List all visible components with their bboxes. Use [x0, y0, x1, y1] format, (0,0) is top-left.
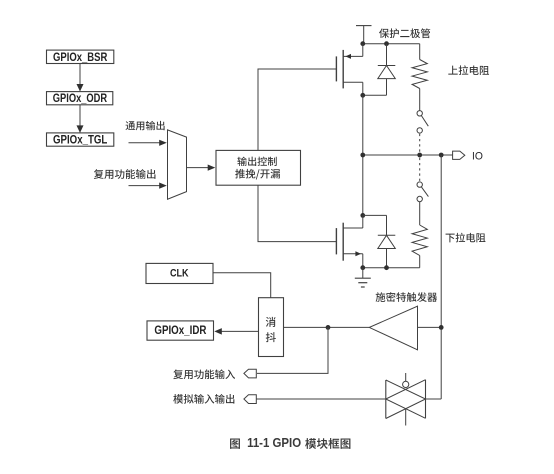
ground	[362, 268, 364, 279]
wire IO to Schmitt input	[418, 326, 442, 328]
power VDD bar	[356, 25, 372, 27]
svg-text:CLK: CLK	[170, 268, 189, 280]
wire ODR to TGL	[79, 105, 81, 132]
junction input node	[326, 325, 331, 330]
wire VDD rail	[363, 43, 420, 45]
arrowhead into mux input 2	[159, 183, 167, 189]
wire NMOS source line	[363, 267, 420, 269]
label analog input/output 模拟输入输出	[173, 394, 234, 404]
pin alternate function input arrowhead	[244, 369, 256, 378]
wire input node to alternate function input	[257, 327, 328, 373]
wire VDD stub	[363, 26, 365, 44]
wire CLK to debounce	[213, 273, 270, 298]
arrowhead into mux input 1	[159, 140, 167, 146]
junction D2 anode	[384, 265, 389, 270]
junction IO-input branch	[439, 153, 444, 158]
junction VDD-PMOS source	[360, 41, 365, 46]
transistor PMOS Q1	[335, 56, 337, 81]
wire NMOS drain node to D2	[363, 214, 387, 216]
label Schmitt trigger 施密特触发器	[376, 292, 438, 302]
diode D2 (to ground)	[386, 215, 388, 235]
output control box 输出控制/推挽-开漏	[216, 150, 301, 185]
wire transmission gate to IO vertical	[426, 398, 442, 400]
wire IO line to S2 (dashed)	[419, 158, 421, 181]
wire alternate function output into mux	[129, 185, 162, 187]
junction IO-switch branch	[417, 153, 422, 158]
arrowhead into GPIOx_TGL	[77, 125, 84, 132]
clock box CLK	[146, 263, 213, 283]
label general-purpose output 通用输出	[126, 121, 165, 130]
wire drain vertical to IO node	[362, 95, 364, 215]
label pull-up resistor 上拉电阻	[448, 65, 489, 75]
debounce box 消抖	[259, 298, 284, 357]
svg-text:GPIOx_TGL: GPIOx_TGL	[53, 132, 108, 146]
caption 图 11-1 GPIO 模块框图	[230, 439, 240, 449]
register box GPIOx_BSR	[47, 50, 114, 63]
wire S1 to IO line (dashed)	[419, 134, 421, 152]
analog switch (transmission gate)	[385, 380, 387, 419]
junction IO-main vertical	[360, 153, 365, 158]
pin analog input/output arrowhead	[244, 395, 256, 404]
wire IO vertical to input circuits	[440, 155, 442, 399]
junction VDD-diode D1	[384, 41, 389, 46]
wire IO line	[363, 154, 453, 156]
arrowhead into GPIOx_IDR	[214, 328, 222, 335]
wire output control to PMOS gate	[258, 69, 336, 150]
wire BSR to ODR	[79, 64, 81, 91]
svg-text:GPIOx_BSR: GPIOx_BSR	[53, 50, 107, 64]
wire mux output	[187, 167, 211, 169]
junction NMOS source	[360, 265, 365, 270]
wire general output into mux	[129, 142, 162, 144]
svg-text:GPIOx_IDR: GPIOx_IDR	[154, 323, 206, 337]
label protection diode 保护二极管	[379, 28, 430, 38]
junction NMOS drain	[360, 213, 365, 218]
register box GPIOx_TGL	[47, 133, 114, 146]
pad IO pin	[453, 151, 465, 159]
register box GPIOx_ODR	[47, 92, 113, 105]
multiplexer	[168, 130, 187, 199]
diode D1 (to VDD)	[386, 44, 388, 66]
arrowhead into GPIOx_ODR	[77, 84, 84, 92]
junction Schmitt-IO	[439, 325, 444, 330]
resistor R1 pull-up	[419, 44, 421, 60]
wire debounce to GPIOx_IDR	[220, 330, 259, 332]
wire PMOS drain node	[363, 94, 387, 96]
wire output control to NMOS gate	[258, 185, 336, 241]
schmitt trigger U1	[369, 306, 417, 350]
resistor R2 pull-down	[419, 202, 421, 225]
wire Schmitt output to debounce	[284, 326, 370, 328]
label pull-down resistor 下拉电阻	[446, 233, 486, 243]
label alternate function output 复用功能输出	[94, 169, 156, 179]
transistor NMOS Q2	[335, 228, 337, 254]
junction PMOS drain	[360, 93, 365, 98]
register box GPIOx_IDR	[147, 321, 214, 340]
wire analog line to transmission gate	[256, 398, 386, 400]
arrowhead into output control box	[208, 165, 216, 171]
svg-text:11-1 GPIO: 11-1 GPIO	[247, 435, 301, 450]
switch S1 (pull-up enable)	[417, 111, 422, 116]
svg-text:GPIOx_ODR: GPIOx_ODR	[53, 91, 107, 105]
svg-text:IO: IO	[472, 150, 483, 162]
switch S2 (pull-down enable)	[417, 182, 422, 187]
label alternate function input 复用功能输入	[173, 369, 235, 379]
